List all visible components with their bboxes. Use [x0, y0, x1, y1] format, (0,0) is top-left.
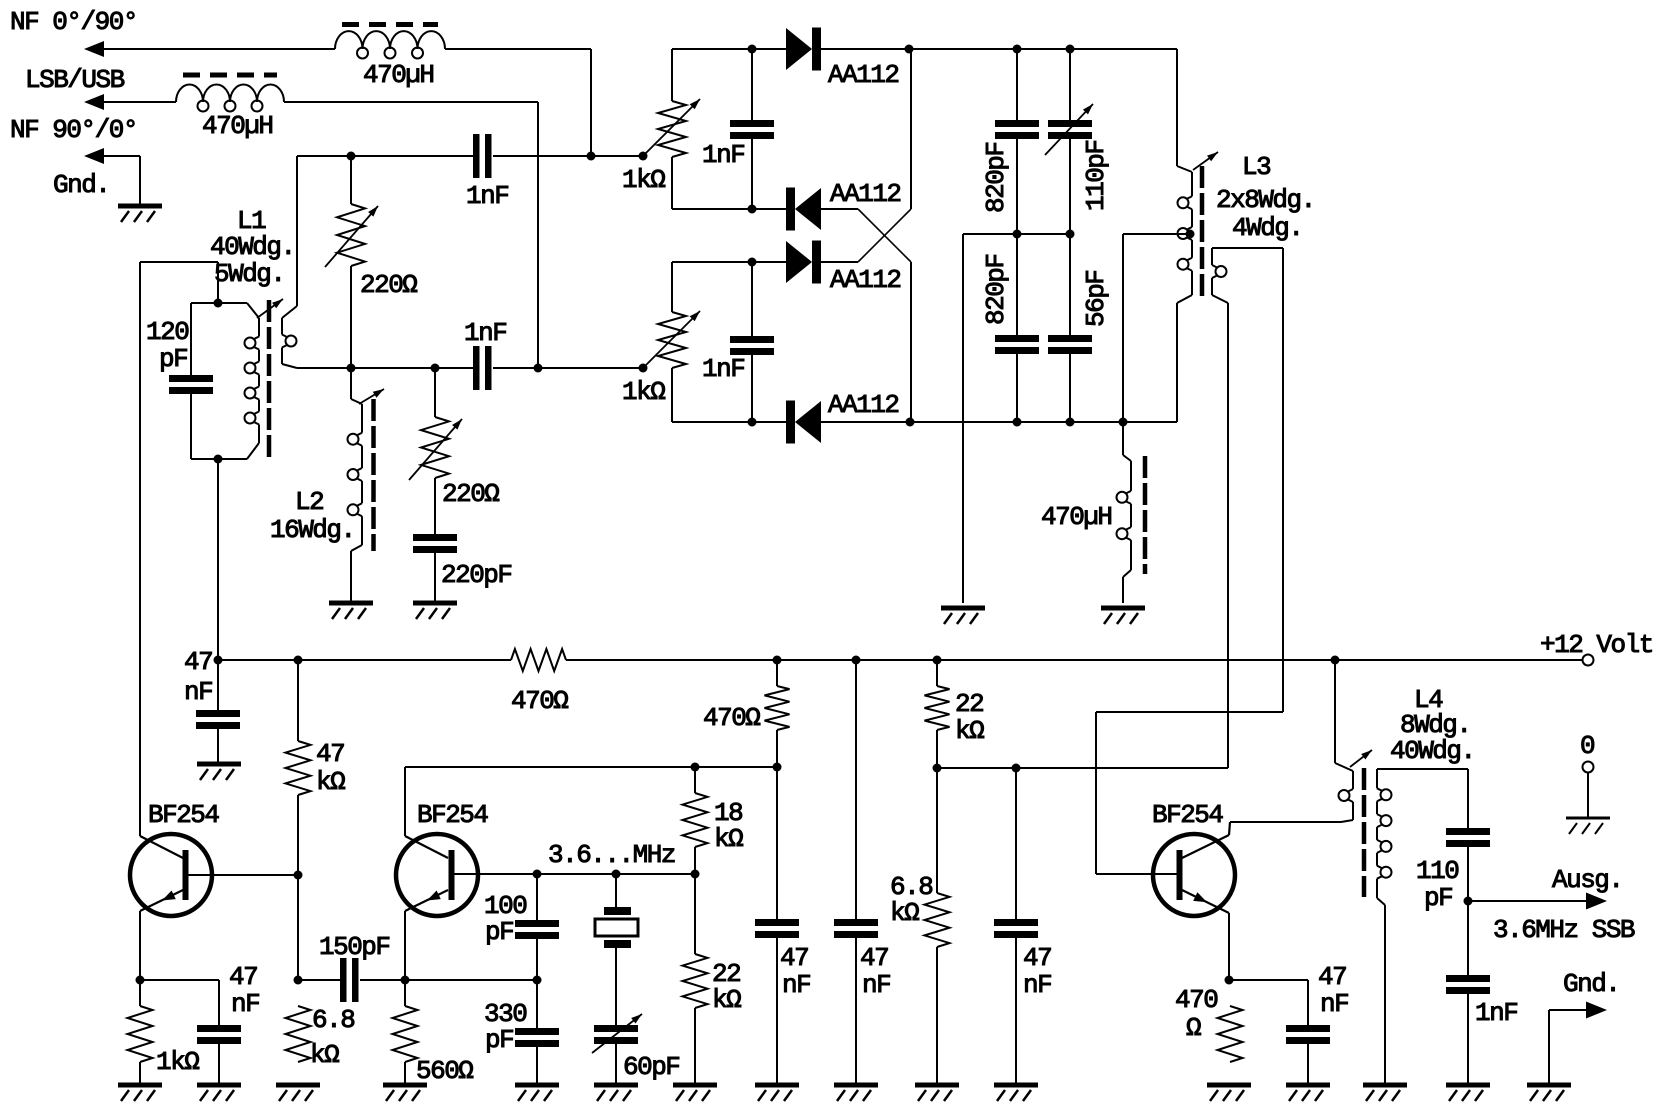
svg-text:AA112: AA112 [828, 60, 899, 90]
svg-text:2x8Wdg.: 2x8Wdg. [1216, 185, 1315, 215]
svg-text:150pF: 150pF [319, 932, 390, 962]
svg-text:pF: pF [485, 1025, 513, 1055]
svg-text:47: 47 [780, 943, 808, 973]
svg-text:5Wdg.: 5Wdg. [214, 259, 285, 289]
svg-text:220Ω: 220Ω [360, 270, 417, 300]
svg-text:47: 47 [860, 943, 888, 973]
svg-text:470Ω: 470Ω [511, 686, 568, 716]
svg-text:kΩ: kΩ [955, 716, 984, 746]
svg-text:pF: pF [485, 917, 513, 947]
svg-text:47: 47 [316, 739, 344, 769]
svg-text:560Ω: 560Ω [416, 1056, 473, 1086]
svg-text:BF254: BF254 [1152, 800, 1223, 830]
svg-text:470: 470 [1175, 985, 1217, 1015]
svg-text:16Wdg.: 16Wdg. [270, 515, 355, 545]
svg-text:470µH: 470µH [363, 60, 434, 90]
svg-text:40Wdg.: 40Wdg. [1390, 736, 1475, 766]
svg-text:pF: pF [1424, 883, 1452, 913]
svg-text:NF 90°/0°: NF 90°/0° [10, 115, 137, 145]
svg-text:BF254: BF254 [148, 800, 219, 830]
svg-text:AA112: AA112 [830, 179, 901, 209]
svg-text:nF: nF [231, 989, 259, 1019]
svg-text:kΩ: kΩ [310, 1040, 339, 1070]
svg-text:3.6MHz SSB: 3.6MHz SSB [1493, 915, 1635, 945]
svg-text:1kΩ: 1kΩ [622, 377, 665, 407]
svg-text:1nF: 1nF [702, 354, 744, 384]
svg-text:L3: L3 [1242, 152, 1270, 182]
svg-text:1nF: 1nF [702, 140, 744, 170]
svg-text:47: 47 [1023, 943, 1051, 973]
svg-text:Ω: Ω [1186, 1013, 1201, 1043]
svg-text:AA112: AA112 [828, 390, 899, 420]
svg-text:4Wdg.: 4Wdg. [1232, 213, 1303, 243]
svg-text:kΩ: kΩ [712, 985, 741, 1015]
svg-text:nF: nF [782, 970, 810, 1000]
svg-text:47: 47 [1318, 962, 1346, 992]
svg-text:60pF: 60pF [623, 1052, 679, 1082]
svg-text:Gnd.: Gnd. [1563, 969, 1619, 999]
svg-text:22: 22 [955, 689, 983, 719]
svg-text:BF254: BF254 [417, 800, 488, 830]
svg-text:220pF: 220pF [441, 560, 512, 590]
svg-text:pF: pF [159, 344, 187, 374]
svg-text:470Ω: 470Ω [703, 703, 760, 733]
svg-text:470µH: 470µH [202, 111, 273, 141]
svg-text:Ausg.: Ausg. [1552, 865, 1623, 895]
svg-text:L2: L2 [295, 487, 323, 517]
svg-text:+12 Volt: +12 Volt [1540, 630, 1653, 660]
svg-text:1kΩ: 1kΩ [156, 1047, 199, 1077]
svg-text:nF: nF [862, 970, 890, 1000]
svg-text:1nF: 1nF [464, 318, 506, 348]
svg-text:6.8: 6.8 [312, 1005, 354, 1035]
svg-text:LSB/USB: LSB/USB [25, 65, 125, 95]
svg-text:nF: nF [184, 677, 212, 707]
svg-text:110pF: 110pF [1081, 140, 1111, 211]
svg-text:nF: nF [1023, 970, 1051, 1000]
svg-text:120: 120 [146, 317, 188, 347]
svg-text:1nF: 1nF [466, 181, 508, 211]
svg-text:NF 0°/90°: NF 0°/90° [10, 7, 137, 37]
svg-text:AA112: AA112 [830, 265, 901, 295]
svg-text:1nF: 1nF [1475, 998, 1517, 1028]
svg-text:1kΩ: 1kΩ [622, 165, 665, 195]
svg-text:kΩ: kΩ [890, 898, 919, 928]
svg-text:820pF: 820pF [981, 142, 1011, 213]
svg-text:220Ω: 220Ω [442, 479, 499, 509]
svg-text:820pF: 820pF [981, 254, 1011, 325]
svg-text:3.6...MHz: 3.6...MHz [548, 840, 675, 870]
svg-text:110: 110 [1416, 856, 1458, 886]
svg-text:47: 47 [184, 647, 212, 677]
svg-text:kΩ: kΩ [316, 767, 345, 797]
svg-text:Gnd.: Gnd. [53, 170, 109, 200]
svg-text:56pF: 56pF [1081, 271, 1111, 327]
svg-text:nF: nF [1320, 989, 1348, 1019]
svg-text:0: 0 [1580, 731, 1594, 761]
svg-text:kΩ: kΩ [714, 824, 743, 854]
svg-text:40Wdg.: 40Wdg. [210, 232, 295, 262]
svg-text:47: 47 [229, 962, 257, 992]
svg-text:470µH: 470µH [1041, 502, 1112, 532]
